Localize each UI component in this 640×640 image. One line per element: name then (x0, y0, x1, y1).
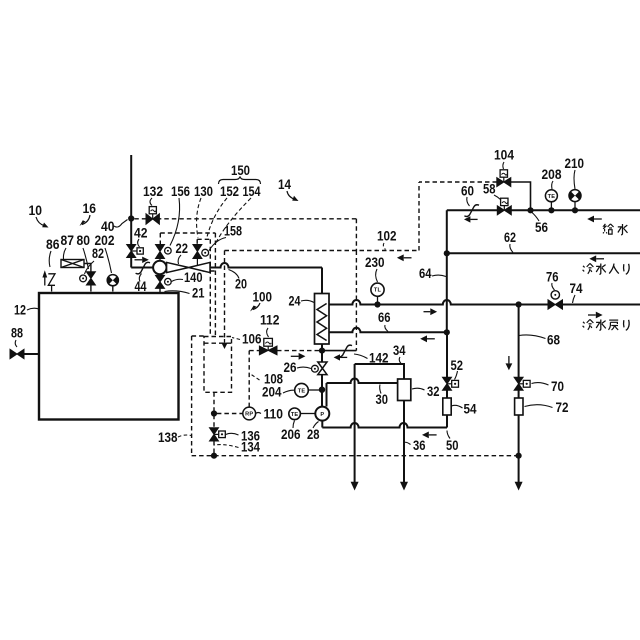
controller 106 dashed box (204, 337, 232, 393)
svg-text:42: 42 (134, 225, 148, 241)
svg-text:66: 66 (378, 309, 391, 325)
component 32 expansion device (398, 379, 411, 401)
label cold water return kanji (583, 319, 630, 330)
wire dashed inner box left stub (196, 239, 198, 245)
valve 132 solenoid (146, 207, 159, 225)
svg-text:22: 22 (176, 240, 189, 256)
wire dashed inner box right edge down to controller 106 (209, 239, 211, 336)
svg-text:102: 102 (377, 228, 397, 244)
wire dashed left edge of unit 100 (224, 251, 226, 340)
svg-text:104: 104 (494, 147, 514, 163)
flow arrow on line 102 left (397, 254, 412, 261)
valve 140 motorized (156, 274, 172, 293)
relief vent 86 (42, 270, 55, 291)
wire feed water line 56 (447, 209, 498, 211)
svg-text:TE: TE (298, 388, 306, 394)
valve 156 motorized (156, 245, 172, 261)
svg-text:12: 12 (14, 302, 26, 318)
svg-text:62: 62 (504, 229, 516, 245)
node junction 134 bottom (211, 453, 217, 459)
wire dashed box around valves 156 158 top (160, 232, 215, 234)
svg-text:24: 24 (289, 293, 301, 309)
outlet arrow 68 (515, 482, 523, 491)
valve 158 motorized (193, 245, 209, 266)
svg-text:TE: TE (291, 412, 299, 418)
svg-text:138: 138 (158, 429, 178, 445)
brace 150 (219, 177, 261, 185)
wire junction to check valve 142 branch (322, 350, 356, 352)
valve 42 (127, 245, 144, 258)
wire bypass 104 branch (511, 182, 531, 210)
svg-text:36: 36 (413, 437, 426, 453)
wire tank drain to valve 88 (24, 353, 39, 355)
valve 26 motorized (312, 362, 328, 375)
svg-text:20: 20 (235, 276, 247, 292)
node junction 56 (527, 207, 533, 213)
svg-text:10: 10 (29, 202, 43, 218)
wire loop 30 left edge (326, 383, 328, 407)
svg-text:72: 72 (556, 399, 569, 415)
wire dashed stem 106 to node 134 (213, 392, 215, 428)
svg-text:88: 88 (11, 325, 23, 341)
check valve 60 (464, 205, 479, 223)
filter 87 (61, 260, 91, 272)
sensor TE 204 (295, 383, 319, 397)
svg-text:68: 68 (547, 332, 560, 348)
wire dashed line 108 valve 112 to junction (277, 350, 319, 352)
wire loop 34 top and right run (355, 364, 404, 379)
svg-text:30: 30 (376, 391, 389, 407)
gauge 210 (569, 190, 581, 211)
wire dashed line 102 riser (418, 182, 420, 251)
svg-text:64: 64 (419, 265, 432, 281)
valve 76 (548, 291, 563, 310)
flow arrow into controller 106 (221, 339, 227, 349)
svg-text:28: 28 (307, 426, 320, 442)
wire dashed line 102 horizontal (225, 250, 420, 252)
svg-text:80: 80 (77, 232, 91, 248)
svg-text:154: 154 (243, 183, 261, 199)
label feed water kanji (603, 224, 628, 235)
check valve 44 (135, 257, 151, 274)
svg-text:76: 76 (546, 269, 559, 285)
component 54 orifice (443, 398, 451, 415)
flow arrow on line 68 down (506, 356, 513, 370)
valve 22 main blending valve (167, 262, 210, 272)
svg-text:26: 26 (284, 359, 297, 375)
wire below 32 down to outlet arrow (403, 401, 405, 484)
svg-text:100: 100 (253, 289, 273, 305)
tank 12 (39, 293, 179, 420)
flow arrow on line 108 right (291, 353, 306, 360)
flow arrow cold water return right (588, 312, 603, 319)
svg-text:32: 32 (427, 383, 440, 399)
wire pump 28 outlet to bottom edge (321, 420, 323, 427)
node junction 230 (374, 301, 380, 307)
node junction 68 bottom dashed (516, 453, 522, 459)
svg-text:142: 142 (369, 350, 389, 366)
svg-text:82: 82 (92, 245, 104, 261)
svg-text:204: 204 (262, 384, 282, 400)
svg-text:132: 132 (143, 183, 163, 199)
svg-text:210: 210 (565, 155, 585, 171)
wire dashed box right edge down to controller 106 (214, 233, 216, 337)
wire dashed sensing line to valve 142 (355, 251, 357, 351)
svg-text:P: P (320, 412, 324, 418)
svg-text:112: 112 (260, 312, 280, 328)
flow arrow on line 74 right (424, 308, 438, 315)
outlet arrow 36 right (400, 482, 408, 491)
wire bottom pipe 50 with hops (322, 423, 447, 428)
svg-text:86: 86 (46, 236, 60, 252)
svg-text:52: 52 (451, 357, 464, 373)
svg-text:140: 140 (184, 269, 203, 285)
wire loop 34 left run down to outlet arrow (354, 364, 356, 483)
wire cold water in line 62 (447, 252, 640, 254)
wire dashed control line from node 40 through valve 132 (134, 218, 356, 220)
valve 82 with handle 80 (80, 272, 96, 292)
wire main supply vertical pipe 40 (130, 155, 132, 245)
wire dashed boundary 138 top stub (192, 335, 204, 337)
node junction TE204 (319, 387, 325, 393)
svg-text:TL: TL (374, 288, 382, 294)
svg-text:70: 70 (551, 378, 564, 394)
node 40 junction dot (128, 215, 134, 221)
valve 52 (443, 377, 459, 390)
svg-text:58: 58 (483, 181, 496, 197)
sensor RP 110 (243, 407, 256, 420)
label cold water in kanji (583, 263, 630, 274)
svg-text:87: 87 (61, 232, 75, 248)
svg-text:156: 156 (171, 183, 190, 199)
pump 22 circle (153, 261, 166, 274)
node junction 208 (548, 207, 554, 213)
svg-text:74: 74 (570, 280, 583, 296)
wire dashed box left stub (159, 233, 161, 244)
wire HX bottom to junction (321, 344, 323, 362)
wire dashed boundary 138 left edge (191, 336, 193, 456)
heat exchanger 24 (315, 294, 330, 345)
svg-text:134: 134 (241, 439, 260, 455)
sensor TE 208 (545, 190, 557, 211)
wire pipe to check valve 44 and pump (131, 267, 153, 269)
wire dashed boundary 138 bottom edge (192, 455, 519, 457)
svg-text:206: 206 (281, 426, 301, 442)
svg-text:34: 34 (393, 342, 406, 358)
valve 112 solenoid (259, 338, 277, 354)
node junction 66/64 (444, 329, 450, 335)
flow arrow cold water in left (589, 255, 604, 262)
wire loop 30 top edge with hop (327, 379, 398, 384)
node junction 210 (572, 207, 578, 213)
flow arrow feed water left (587, 216, 602, 223)
wire chilled water return line 74 with hops (329, 300, 548, 305)
sensor TL 230 (371, 283, 384, 304)
valve 70 (514, 377, 530, 390)
node junction 68 top (516, 301, 522, 307)
valve 104 solenoid (497, 170, 511, 187)
valve 58 solenoid (497, 198, 511, 215)
svg-text:16: 16 (83, 200, 97, 216)
svg-text:158: 158 (224, 223, 242, 239)
wire chilled water out line 66 (329, 328, 447, 333)
wire dashed box bottom stub (203, 270, 216, 272)
wire dashed inner box 158 top (197, 238, 210, 240)
svg-text:150: 150 (231, 162, 250, 178)
wire pipe below valve 26 to pump 28 (321, 375, 323, 407)
wire dashed inner box bottom stub (203, 264, 211, 266)
svg-text:44: 44 (135, 278, 147, 294)
wire dashed from valve 104 (419, 181, 497, 183)
wire dashed line 108 to valve 112 (249, 350, 259, 352)
svg-text:56: 56 (535, 219, 548, 235)
svg-text:54: 54 (464, 401, 477, 417)
sensor TE 206 (289, 408, 315, 420)
svg-text:110: 110 (264, 406, 284, 422)
wire pipe 20 down to heat exchanger (321, 268, 323, 294)
wire dashed drop from 132 line (355, 219, 357, 251)
svg-text:21: 21 (192, 285, 205, 301)
svg-text:230: 230 (365, 254, 385, 270)
svg-text:106: 106 (242, 331, 262, 347)
node junction 134 top (211, 410, 217, 416)
svg-text:60: 60 (461, 183, 474, 199)
valve 136 (210, 428, 226, 441)
flow arrow on line 50 left (422, 432, 437, 439)
svg-text:RP: RP (245, 412, 253, 418)
svg-text:152: 152 (220, 183, 239, 199)
node junction 62/64 (444, 250, 450, 256)
svg-text:50: 50 (446, 437, 459, 453)
svg-text:TE: TE (548, 194, 556, 200)
wire dashed RP riser to line 108 (248, 351, 250, 408)
component 72 orifice (515, 398, 523, 415)
wire branch 50 column up to line 66 (446, 332, 448, 377)
gauge 202 (107, 275, 118, 292)
svg-text:208: 208 (542, 166, 562, 182)
valve 88 (10, 349, 24, 358)
svg-text:130: 130 (194, 183, 213, 199)
flow arrow on line 66 left (420, 335, 435, 342)
wire branch 68 column (518, 305, 520, 378)
pump 28 (315, 407, 329, 421)
check valve 142 (334, 345, 352, 360)
wire feed water riser 64 (446, 210, 448, 332)
node junction below HX (319, 348, 325, 354)
wire pipe 20 horizontal with hop over dashed line (210, 263, 322, 268)
outlet arrow 36 left (351, 482, 359, 491)
svg-text:14: 14 (278, 176, 291, 192)
wire dashed node to RP sensor 110 (217, 413, 243, 415)
